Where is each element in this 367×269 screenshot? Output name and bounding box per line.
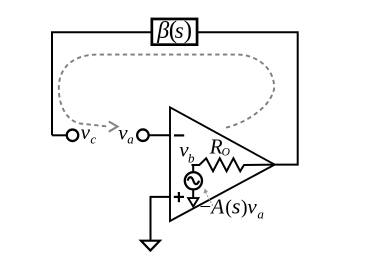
svg-text:c: c xyxy=(90,131,96,146)
svg-text:a: a xyxy=(257,207,264,222)
svg-text:β(s): β(s) xyxy=(156,17,192,44)
svg-text:b: b xyxy=(188,151,195,166)
svg-text:O: O xyxy=(222,147,231,159)
svg-text:v: v xyxy=(81,120,91,144)
svg-text:−A(s)v: −A(s)v xyxy=(198,194,257,219)
svg-text:a: a xyxy=(127,131,134,146)
